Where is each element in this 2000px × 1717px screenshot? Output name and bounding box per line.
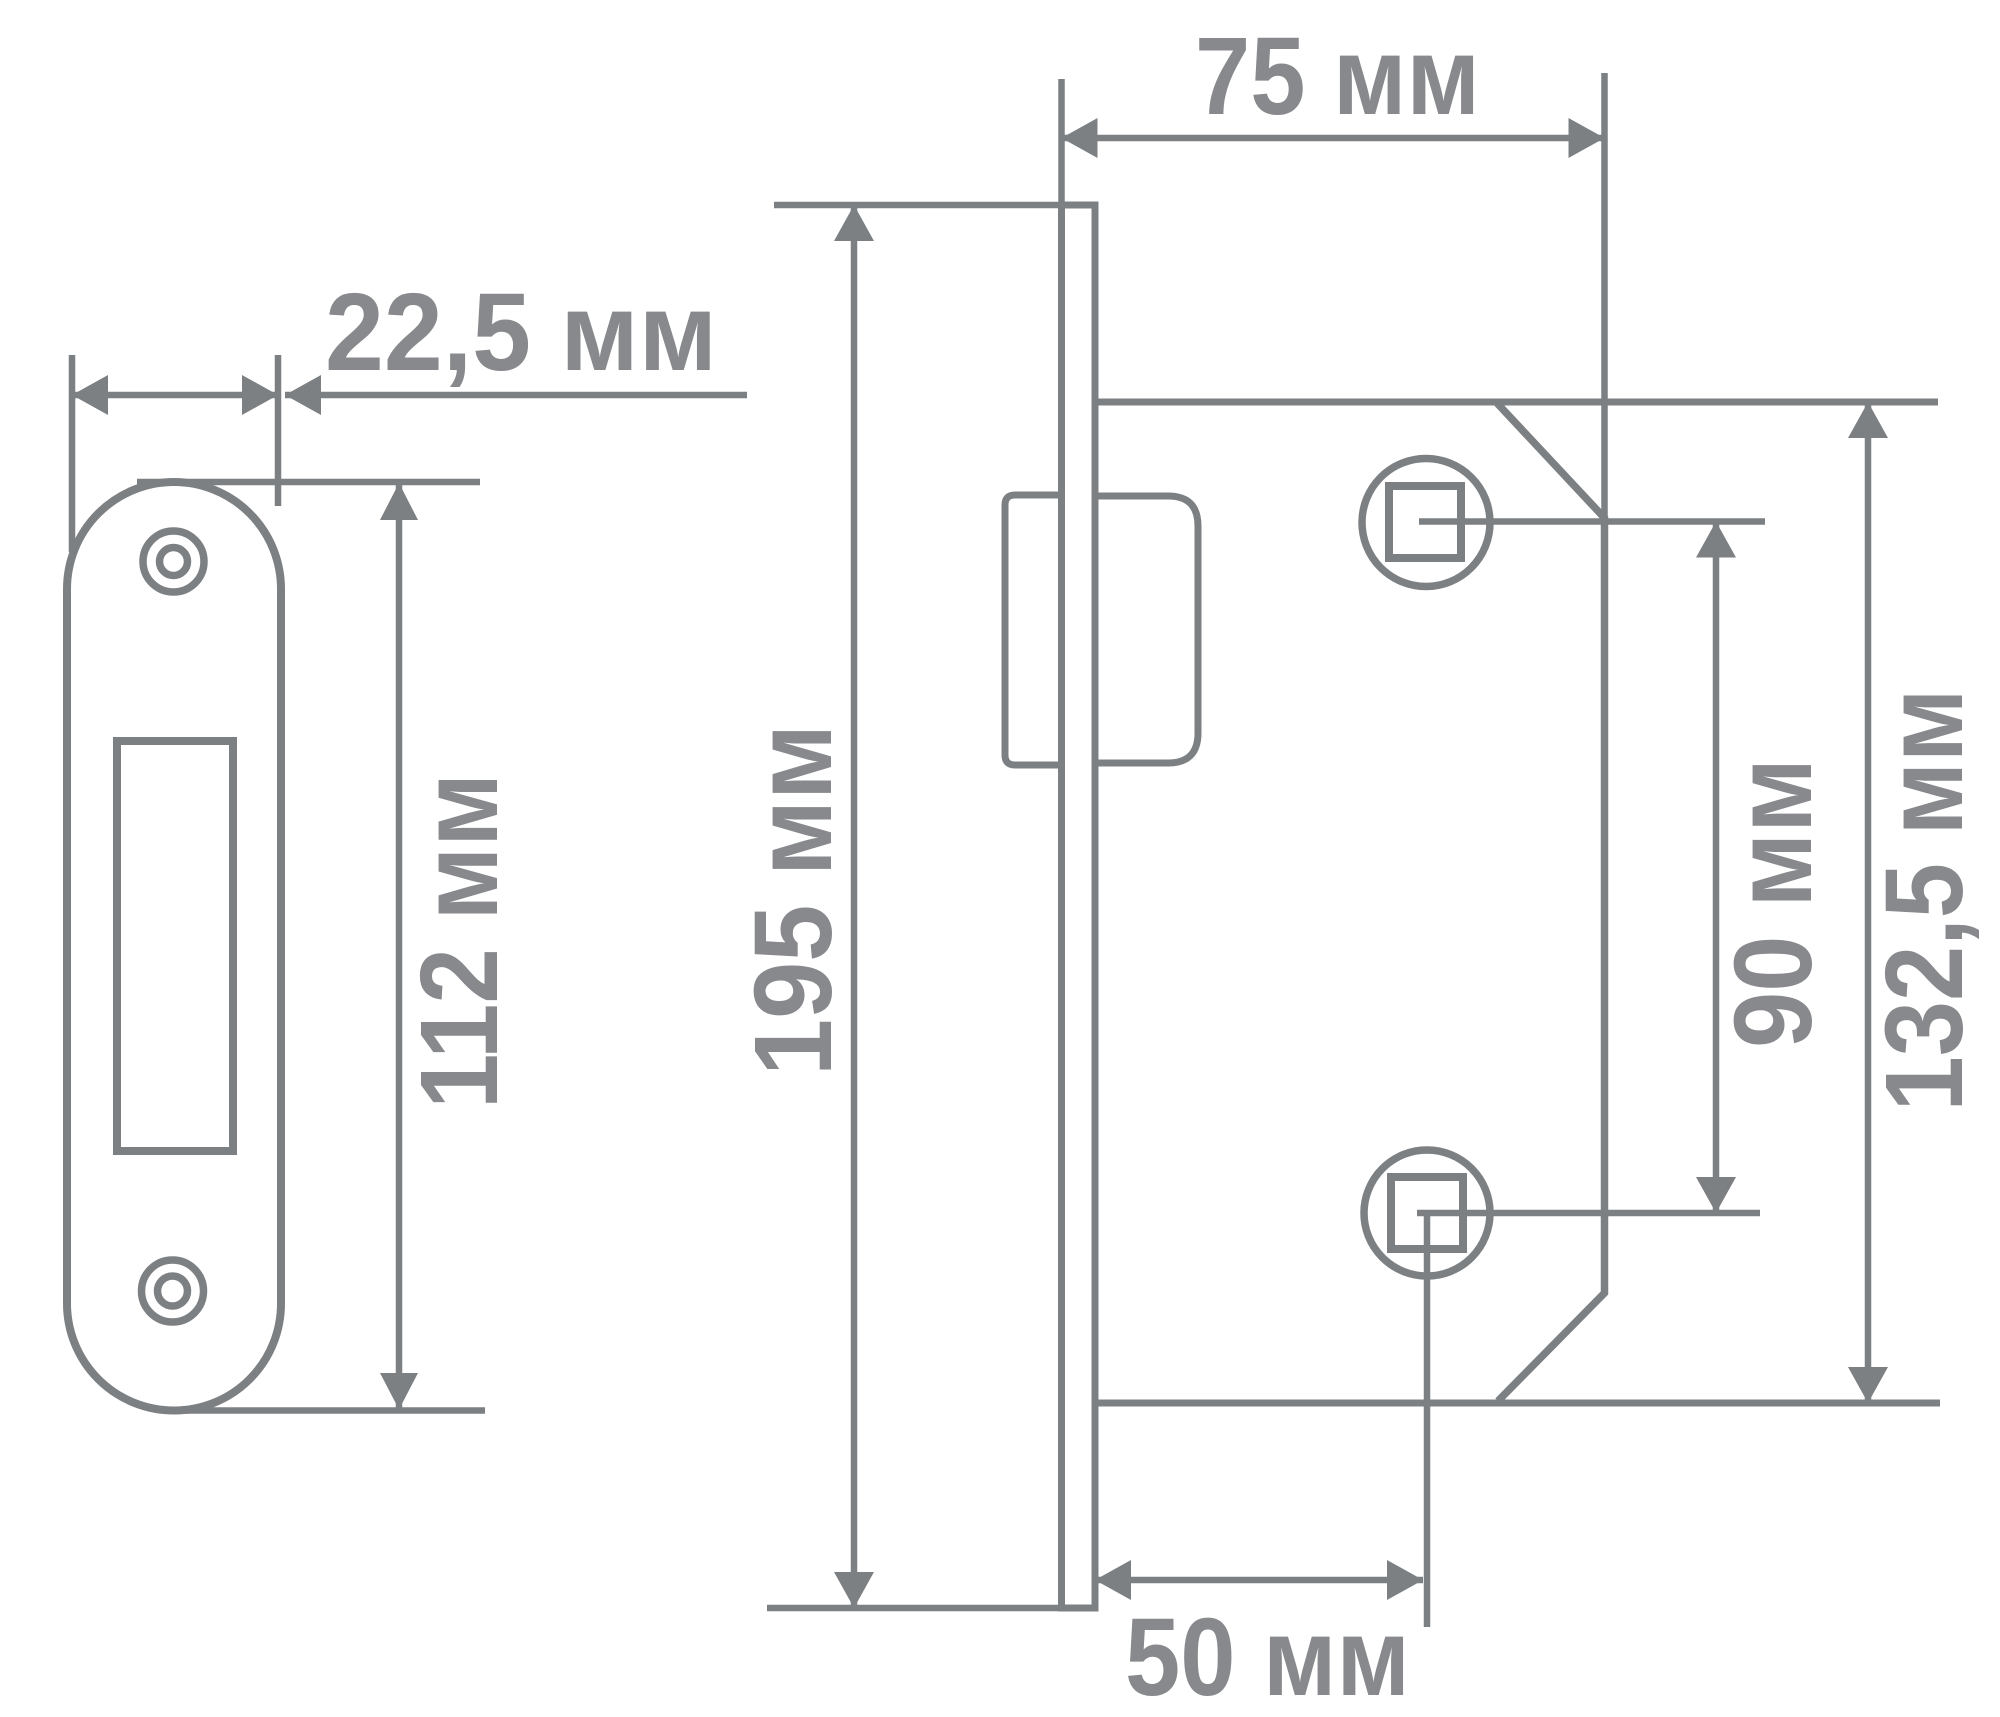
svg-text:90 мм: 90 мм bbox=[1712, 758, 1835, 1048]
spindle hole top square bbox=[1389, 486, 1461, 558]
svg-text:22,5 мм: 22,5 мм bbox=[325, 271, 717, 394]
dim 132,5 dimension line bbox=[1865, 402, 1872, 1403]
dim 22,5 dimension line bbox=[72, 392, 278, 399]
dim 195 arrow up bbox=[834, 205, 874, 241]
dim 112 dimension line bbox=[396, 482, 403, 1411]
strike plate slot bbox=[117, 741, 233, 1151]
dim 112 extension line top bbox=[137, 479, 480, 486]
dim 90 dimension line bbox=[1713, 522, 1720, 1214]
svg-text:75 мм: 75 мм bbox=[1195, 15, 1480, 138]
dim 132,5 arrow down bbox=[1848, 1367, 1888, 1403]
dim 195 extension line top bbox=[774, 202, 1095, 209]
dim 195 extension line bottom bbox=[767, 1605, 1095, 1612]
dim 112 arrow down bbox=[380, 1373, 418, 1410]
dim 75 dimension line bbox=[1062, 135, 1605, 142]
lock body right edge with chamfers bbox=[1496, 402, 1605, 1401]
dim 90 arrow up bbox=[1696, 522, 1736, 558]
spindle hole top circle bbox=[1362, 459, 1490, 587]
lock body bottom edge + 132,5 bottom extension bbox=[1095, 1400, 1940, 1407]
dim 195 arrow down bbox=[834, 1572, 874, 1608]
dim 75 arrow right bbox=[1569, 118, 1605, 158]
dim 50 arrow left bbox=[1095, 1560, 1131, 1600]
dim 22,5 extension line right bbox=[275, 355, 282, 506]
latch body block bbox=[1095, 496, 1198, 763]
dim 75 extension line left bbox=[1058, 79, 1065, 205]
dim 132,5 arrow up bbox=[1848, 402, 1888, 438]
dim 22,5 arrow left bbox=[72, 375, 108, 415]
dim 195 dimension line bbox=[851, 205, 858, 1608]
spindle hole bottom leader line right bbox=[1417, 1210, 1760, 1217]
screw hole bottom inner bbox=[158, 1276, 188, 1306]
spindle hole top leader line bbox=[1419, 518, 1765, 525]
dim 22,5 arrow right bbox=[242, 375, 278, 415]
spindle hole bottom leader line down bbox=[1424, 1213, 1431, 1627]
screw hole top inner bbox=[160, 548, 188, 576]
strike plate outline bbox=[67, 482, 281, 1410]
dim 75 extension line right bbox=[1601, 73, 1608, 518]
svg-text:50 мм: 50 мм bbox=[1125, 1596, 1410, 1717]
screw hole top outer bbox=[143, 531, 204, 592]
svg-text:195 мм: 195 мм bbox=[732, 724, 855, 1076]
dim 50 arrow right bbox=[1387, 1560, 1423, 1600]
dim 112 extension line bottom bbox=[171, 1407, 485, 1414]
dim 90 arrow down bbox=[1696, 1177, 1736, 1213]
dim 50 dimension line bbox=[1095, 1577, 1423, 1584]
dim 22,5 extension line left bbox=[69, 355, 76, 552]
dim 22,5 tail line bbox=[285, 392, 747, 399]
svg-text:112 мм: 112 мм bbox=[398, 773, 521, 1109]
spindle hole bottom square bbox=[1391, 1177, 1463, 1249]
faceplate bbox=[1062, 205, 1096, 1608]
spindle hole bottom circle bbox=[1364, 1150, 1490, 1276]
dim 22,5 tail arrow bbox=[285, 375, 321, 415]
dim 112 arrow up bbox=[380, 483, 418, 520]
lock body top edge + 132,5 top extension bbox=[1095, 399, 1938, 406]
screw hole bottom outer bbox=[142, 1260, 204, 1322]
svg-text:132,5 мм: 132,5 мм bbox=[1863, 689, 1986, 1112]
latch bolt front bbox=[1005, 495, 1061, 765]
dim 75 arrow left bbox=[1062, 118, 1098, 158]
